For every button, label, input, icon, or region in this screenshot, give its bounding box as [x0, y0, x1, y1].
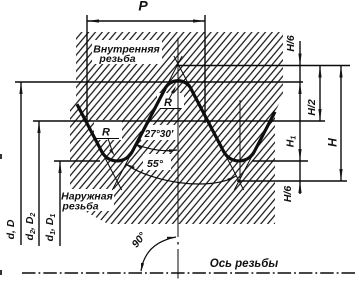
svg-text:H/2: H/2 [306, 99, 318, 116]
svg-text:P: P [138, 0, 148, 14]
svg-text:27°30′: 27°30′ [144, 129, 174, 140]
svg-text:R: R [102, 127, 110, 139]
svg-text:H/6: H/6 [285, 35, 297, 52]
svg-text:H: H [326, 138, 340, 147]
svg-text:d, D: d, D [5, 219, 17, 239]
svg-text:резьба: резьба [61, 201, 98, 213]
svg-text:d2, D2: d2, D2 [24, 213, 37, 241]
svg-text:55°: 55° [147, 158, 164, 170]
svg-text:R: R [164, 97, 172, 109]
svg-text:Ось резьбы: Ось резьбы [210, 258, 279, 270]
svg-text:резьба: резьба [98, 53, 135, 65]
svg-text:d1, D1: d1, D1 [44, 214, 57, 242]
svg-text:H/6: H/6 [282, 186, 294, 203]
